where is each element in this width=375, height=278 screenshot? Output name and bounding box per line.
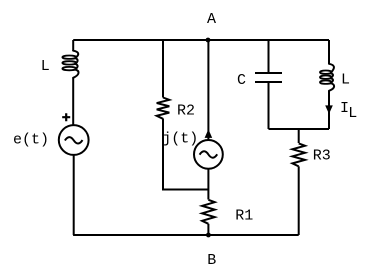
svg-text:j(t): j(t): [162, 131, 198, 148]
node A: [206, 38, 211, 43]
wire L right branch upper: [328, 40, 330, 64]
svg-text:L: L: [348, 105, 357, 122]
resistor R2: [157, 98, 170, 119]
svg-text:R3: R3: [313, 147, 331, 164]
wire bottom rail: [73, 234, 299, 236]
resistor R3: [292, 143, 305, 166]
resistor R1: [202, 200, 215, 224]
voltage source e(t): [59, 125, 89, 155]
wire C branch upper: [268, 40, 270, 73]
wire left branch upper: [72, 40, 74, 51]
wire top rail: [73, 39, 329, 41]
wire R2 branch lower + connector: [163, 119, 208, 190]
wire left branch lower: [72, 155, 75, 235]
node B: [206, 233, 211, 238]
arrow current source direction: [205, 129, 213, 138]
wire j(t) branch upper: [207, 40, 209, 140]
plus polarity: [62, 113, 70, 121]
wire R2 branch upper: [162, 40, 164, 98]
wire parallel bottom: [269, 128, 330, 130]
svg-text:L: L: [341, 71, 350, 88]
wire C branch lower: [268, 82, 270, 129]
wire left branch middle: [72, 78, 74, 126]
wire R3 branch upper: [298, 129, 300, 143]
svg-text:A: A: [207, 11, 216, 28]
current source j(t): [194, 140, 223, 169]
wire R1 to node B: [207, 224, 209, 235]
wire L right branch lower: [328, 91, 330, 130]
wire j(t) branch lower: [207, 169, 209, 200]
svg-text:C: C: [237, 72, 246, 89]
svg-text:R2: R2: [177, 103, 195, 120]
svg-text:e(t): e(t): [13, 132, 49, 149]
svg-text:B: B: [207, 252, 216, 269]
capacitor C: [255, 73, 282, 82]
arrow current IL: [325, 105, 333, 114]
inductor L left: [73, 51, 78, 78]
wire R3 branch lower: [298, 166, 300, 235]
svg-text:R1: R1: [235, 207, 253, 224]
inductor L right: [329, 64, 334, 91]
svg-text:L: L: [41, 58, 50, 75]
